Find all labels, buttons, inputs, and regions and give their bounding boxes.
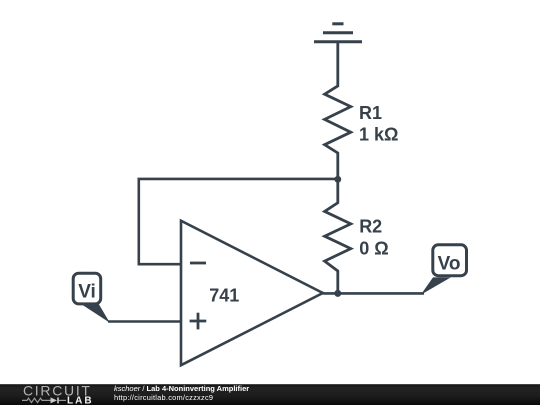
svg-text:kschoer / Lab 4-Noninverting A: kschoer / Lab 4-Noninverting Amplifier: [114, 384, 249, 393]
svg-text:Vi: Vi: [78, 281, 96, 302]
svg-text:741: 741: [209, 285, 239, 305]
svg-text:LAB: LAB: [67, 396, 94, 405]
svg-text:Vo: Vo: [438, 253, 461, 274]
svg-text:1 kΩ: 1 kΩ: [359, 125, 398, 145]
svg-text:R2: R2: [359, 216, 382, 236]
svg-text:0 Ω: 0 Ω: [359, 239, 388, 259]
svg-text:R1: R1: [359, 103, 382, 123]
svg-text:http://circuitlab.com/czzxzc9: http://circuitlab.com/czzxzc9: [114, 393, 213, 402]
